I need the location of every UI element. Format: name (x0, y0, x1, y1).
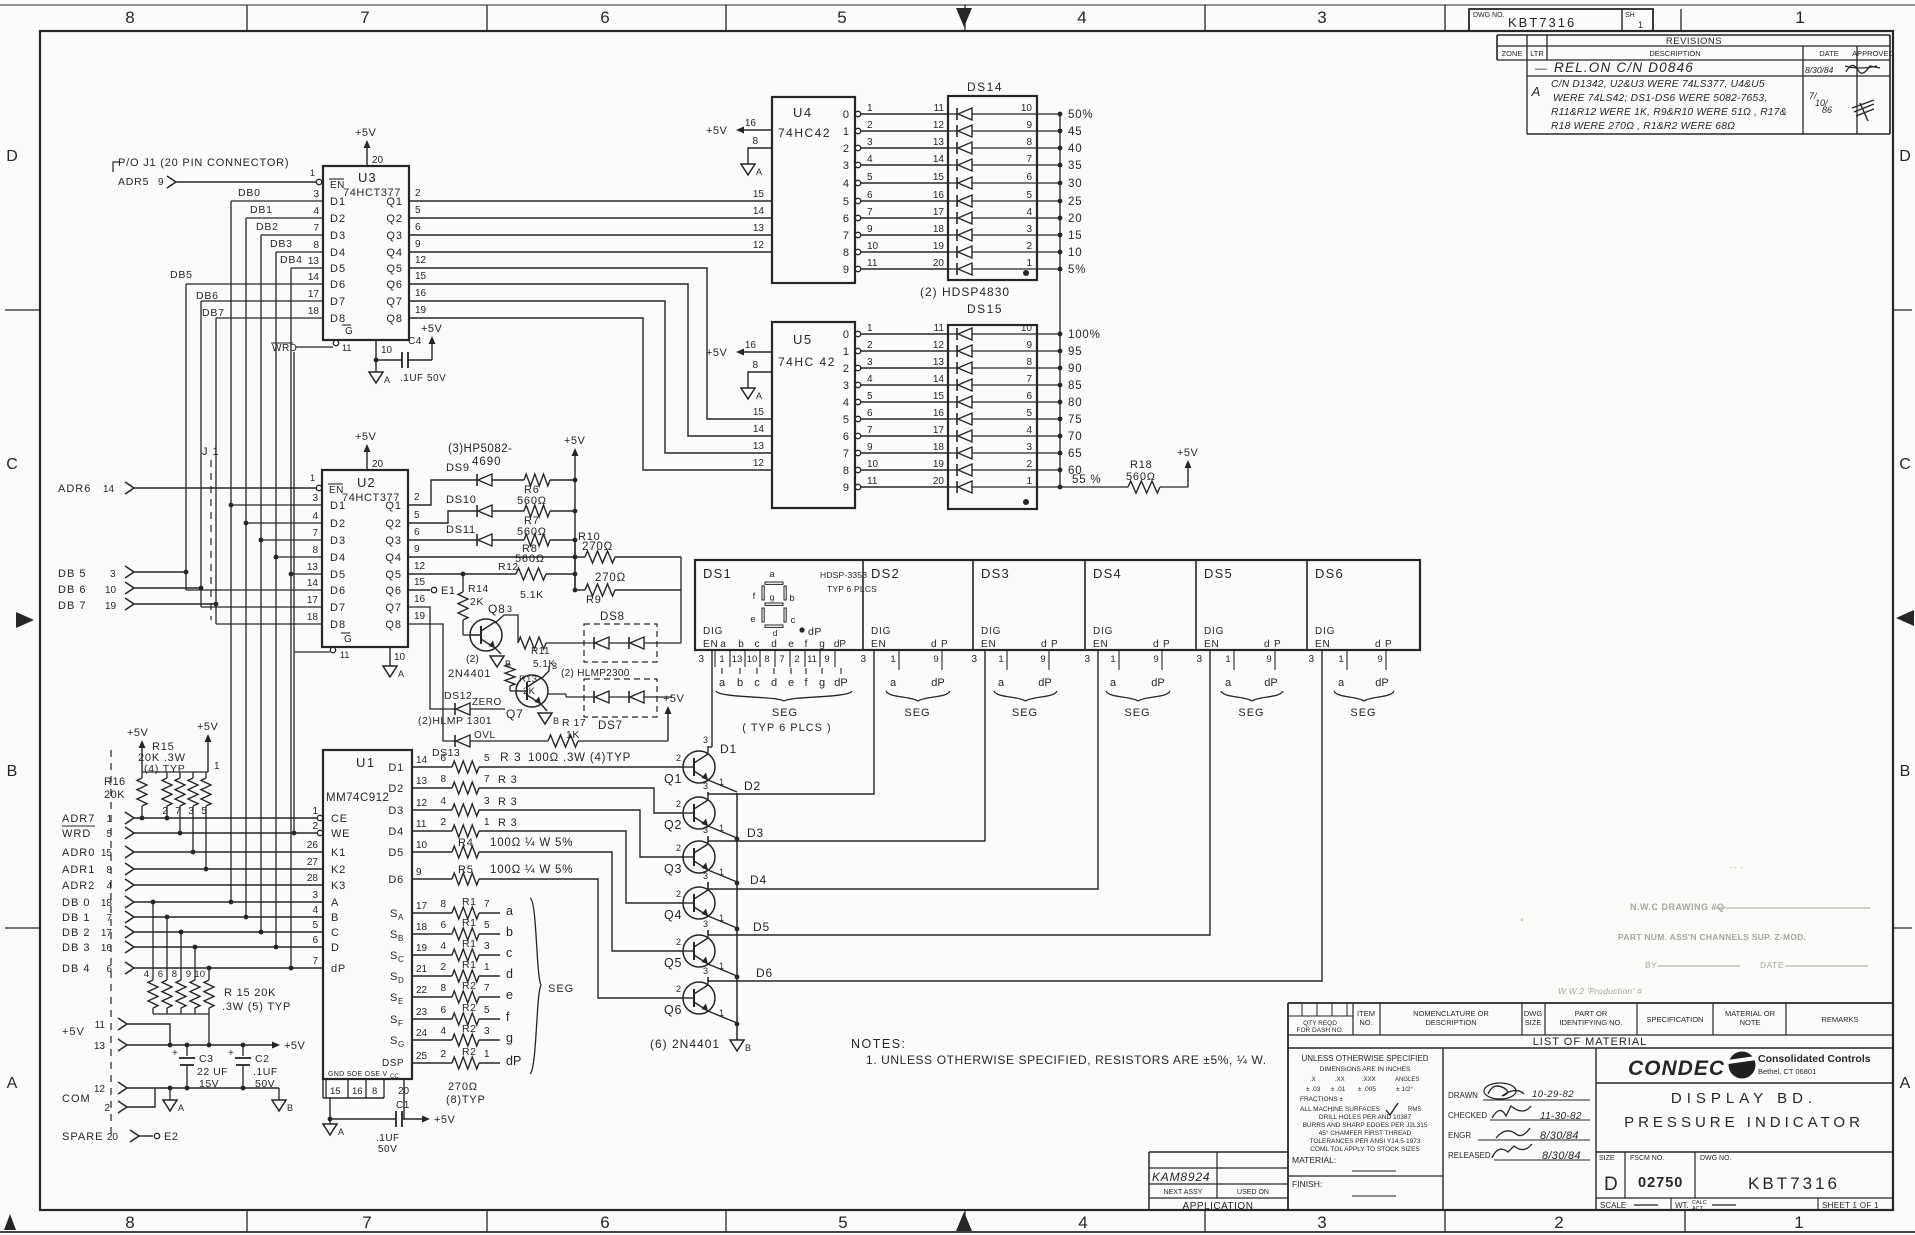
svg-text:8: 8 (106, 865, 112, 876)
svg-text:D1: D1 (330, 196, 346, 208)
svg-text:Q8: Q8 (488, 602, 506, 616)
svg-text:DB 6: DB 6 (58, 584, 86, 596)
svg-text:560Ω: 560Ω (517, 526, 547, 538)
svg-text:A: A (384, 375, 390, 385)
svg-text:8: 8 (440, 774, 446, 785)
svg-text:ADR1: ADR1 (62, 864, 95, 876)
svg-text:a: a (720, 639, 726, 650)
svg-text:1: 1 (843, 126, 849, 138)
svg-text:SCALE: SCALE (1600, 1201, 1626, 1210)
svg-text:5%: 5% (1068, 264, 1086, 276)
svg-text:R18 WERE 270Ω , R1&R2 WERE 68Ω: R18 WERE 270Ω , R1&R2 WERE 68Ω (1551, 121, 1735, 132)
svg-text:50V: 50V (378, 1144, 397, 1155)
svg-text:8: 8 (843, 247, 849, 259)
svg-text:74HC 42: 74HC 42 (778, 355, 836, 369)
svg-text:DSP: DSP (382, 1058, 404, 1069)
svg-text:1: 1 (1026, 258, 1032, 269)
svg-text:R14: R14 (468, 583, 489, 595)
svg-text:9: 9 (867, 442, 873, 453)
svg-text:4: 4 (1077, 8, 1086, 27)
svg-text:16: 16 (101, 943, 113, 954)
svg-text:g: g (819, 677, 825, 689)
svg-text:3: 3 (703, 919, 708, 929)
svg-text:RELEASED: RELEASED (1448, 1151, 1491, 1160)
svg-text:4: 4 (843, 178, 849, 190)
svg-text:11: 11 (807, 654, 817, 665)
svg-text:S: S (390, 971, 397, 983)
svg-text:Q5: Q5 (385, 569, 402, 581)
svg-text:6: 6 (158, 969, 163, 980)
svg-text:e: e (506, 988, 513, 1002)
svg-text:9: 9 (416, 867, 422, 878)
svg-text:D5: D5 (753, 920, 770, 934)
svg-text:3: 3 (484, 941, 490, 952)
svg-text:13: 13 (933, 357, 945, 368)
svg-text:G: G (398, 1040, 404, 1049)
svg-text:11-30-82: 11-30-82 (1540, 1111, 1582, 1122)
svg-text:7: 7 (1026, 374, 1032, 385)
svg-text:b: b (789, 593, 794, 604)
svg-text:11: 11 (934, 323, 945, 334)
svg-text:C2: C2 (255, 1053, 269, 1065)
svg-text:+: + (228, 1048, 234, 1059)
svg-text:8/30/84: 8/30/84 (1542, 1150, 1581, 1162)
svg-text:19: 19 (933, 459, 945, 470)
svg-text:20: 20 (372, 459, 384, 470)
svg-text:ZONE: ZONE (1502, 49, 1523, 58)
svg-text:± 1/2°: ± 1/2° (1396, 1085, 1413, 1093)
svg-text:9: 9 (1153, 654, 1158, 665)
svg-text:3: 3 (110, 569, 116, 580)
svg-text:d P: d P (1041, 639, 1058, 650)
svg-text:7: 7 (360, 8, 369, 27)
svg-text:10: 10 (381, 345, 393, 356)
svg-text:55 %: 55 % (1072, 474, 1101, 486)
svg-text:12: 12 (94, 1084, 106, 1095)
svg-text:R1: R1 (462, 938, 476, 950)
svg-text:2: 2 (843, 143, 849, 155)
svg-text:65: 65 (1068, 448, 1082, 460)
svg-text:8: 8 (752, 360, 758, 371)
svg-text:U5: U5 (793, 332, 813, 347)
svg-text:C: C (6, 456, 18, 473)
svg-text:B: B (287, 1103, 293, 1113)
svg-text:13: 13 (753, 441, 765, 452)
svg-text:24: 24 (416, 1028, 428, 1039)
svg-text:70: 70 (1068, 431, 1082, 443)
svg-text:1: 1 (310, 168, 315, 178)
svg-text:NOTES:: NOTES: (851, 1037, 907, 1051)
svg-text:DS4: DS4 (1093, 566, 1122, 581)
svg-text:3: 3 (552, 661, 557, 671)
svg-text:17: 17 (933, 207, 945, 218)
svg-text:EN: EN (981, 639, 997, 650)
svg-text:15: 15 (753, 189, 765, 200)
svg-text:Consolidated Controls: Consolidated Controls (1758, 1053, 1871, 1065)
svg-text:BY: BY (1645, 960, 1657, 970)
svg-text:DESCRIPTION: DESCRIPTION (1649, 49, 1700, 58)
svg-text:f: f (753, 591, 756, 602)
svg-text:1: 1 (214, 761, 220, 772)
svg-text:5.1K: 5.1K (520, 589, 544, 601)
svg-text:23: 23 (416, 1007, 428, 1018)
svg-text:17: 17 (101, 928, 113, 939)
svg-text:MATERIAL OR: MATERIAL OR (1725, 1009, 1776, 1018)
svg-text:10: 10 (747, 654, 758, 665)
svg-text:2: 2 (1554, 1213, 1563, 1232)
svg-text:DS14: DS14 (967, 80, 1003, 94)
svg-text:f: f (506, 1010, 510, 1024)
svg-text:MM74C912: MM74C912 (326, 792, 389, 804)
svg-text:5: 5 (312, 920, 318, 931)
svg-text:+5V: +5V (434, 1114, 456, 1126)
svg-text:R11: R11 (531, 646, 550, 657)
svg-text:8: 8 (764, 654, 769, 665)
svg-text:.1UF 50V: .1UF 50V (400, 373, 446, 384)
svg-text:DS8: DS8 (600, 611, 625, 623)
svg-text:560Ω: 560Ω (1126, 471, 1156, 483)
svg-text:DB 1: DB 1 (62, 912, 90, 924)
svg-text:DIG: DIG (1315, 626, 1335, 637)
svg-text:D1: D1 (388, 762, 404, 774)
svg-text:ADR2: ADR2 (62, 880, 95, 892)
svg-text:20: 20 (933, 258, 945, 269)
svg-text:13: 13 (416, 776, 428, 787)
svg-text:3: 3 (507, 604, 512, 614)
svg-text:1: 1 (719, 654, 724, 665)
svg-text:11: 11 (867, 476, 878, 487)
svg-text:3: 3 (867, 137, 873, 148)
svg-text:+5V: +5V (127, 727, 149, 739)
svg-text:8: 8 (125, 1213, 134, 1232)
svg-text:A: A (398, 913, 404, 922)
svg-text:90: 90 (1068, 363, 1082, 375)
svg-text:1: 1 (484, 817, 490, 828)
svg-text:.XXX: .XXX (1362, 1077, 1376, 1083)
svg-text:12: 12 (933, 120, 945, 131)
svg-text:6: 6 (106, 964, 112, 975)
svg-text:a: a (1338, 677, 1345, 689)
svg-text:1: 1 (1794, 1213, 1803, 1232)
svg-text:95: 95 (1068, 346, 1082, 358)
svg-text:U2: U2 (357, 475, 376, 490)
svg-text:DRILL HOLES PER AND 10387: DRILL HOLES PER AND 10387 (1319, 1114, 1412, 1121)
svg-text:+5V: +5V (706, 125, 728, 137)
svg-text:6: 6 (414, 527, 420, 538)
svg-text:1: 1 (867, 323, 873, 334)
svg-text:1: 1 (719, 823, 724, 833)
svg-text:± .005: ± .005 (1358, 1086, 1376, 1093)
svg-text:40: 40 (1068, 143, 1082, 155)
svg-text:5: 5 (837, 8, 846, 27)
svg-text:19: 19 (933, 241, 945, 252)
svg-text:K2: K2 (331, 864, 346, 876)
svg-text:Q1: Q1 (664, 772, 682, 786)
svg-text:4: 4 (1078, 1213, 1087, 1232)
svg-text:SEG: SEG (1238, 707, 1264, 719)
svg-text:9: 9 (186, 969, 191, 980)
svg-text:7: 7 (362, 1213, 371, 1232)
svg-text:50%: 50% (1068, 109, 1093, 121)
svg-text:3: 3 (1196, 654, 1202, 665)
svg-text:SPECIFICATION: SPECIFICATION (1647, 1015, 1704, 1024)
svg-text:DS13: DS13 (432, 747, 460, 759)
svg-text:Q3: Q3 (664, 862, 682, 876)
svg-text:30: 30 (1068, 178, 1082, 190)
svg-text:2N4401: 2N4401 (448, 668, 491, 680)
svg-text:10: 10 (105, 585, 117, 596)
svg-text:3: 3 (971, 654, 977, 665)
svg-text:CONDEC: CONDEC (1628, 1057, 1725, 1080)
svg-text:1: 1 (719, 777, 724, 787)
svg-text:CHECKED: CHECKED (1448, 1111, 1487, 1120)
svg-text:11: 11 (416, 819, 427, 830)
svg-text:DWG NO.: DWG NO. (1700, 1155, 1732, 1162)
svg-text:25: 25 (416, 1051, 428, 1062)
svg-text:DIG: DIG (703, 626, 723, 637)
svg-text:D3: D3 (330, 535, 346, 547)
svg-text:ENGR: ENGR (1448, 1131, 1471, 1140)
svg-text:Q2: Q2 (664, 818, 682, 832)
svg-text:DIG: DIG (1093, 626, 1113, 637)
svg-text:a: a (998, 677, 1005, 689)
svg-text:d P: d P (1264, 639, 1281, 650)
svg-text:D8: D8 (330, 313, 346, 325)
svg-text:W.W.2 'Production' #: W.W.2 'Production' # (1558, 986, 1642, 996)
svg-text:WERE 74LS42; DS1-DS6 WERE 5082: WERE 74LS42; DS1-DS6 WERE 5082-7653, (1553, 93, 1767, 104)
svg-text:20K: 20K (104, 789, 125, 801)
svg-text:FSCM NO.: FSCM NO. (1630, 1155, 1664, 1162)
svg-text:B: B (745, 1043, 751, 1053)
svg-text:1: 1 (310, 473, 315, 483)
svg-text:8: 8 (1026, 357, 1032, 368)
svg-text:+: + (172, 1048, 178, 1059)
svg-text:EN: EN (1315, 639, 1331, 650)
svg-text:9: 9 (824, 654, 829, 665)
svg-text:DB6: DB6 (196, 290, 219, 302)
svg-text:17: 17 (416, 901, 428, 912)
svg-text:Q4: Q4 (386, 247, 403, 259)
svg-text:1: 1 (1795, 8, 1804, 27)
svg-text:1: 1 (484, 962, 490, 973)
svg-text:9: 9 (415, 239, 421, 250)
svg-text:dP: dP (1038, 677, 1051, 689)
svg-text:9: 9 (1377, 654, 1382, 665)
svg-text:dP: dP (1151, 677, 1164, 689)
svg-text:6: 6 (600, 1213, 609, 1232)
svg-text:D1: D1 (330, 500, 346, 512)
svg-text:ALL MACHINE SURFACES: ALL MACHINE SURFACES (1300, 1106, 1381, 1113)
svg-text:18: 18 (308, 306, 320, 317)
svg-text:6: 6 (1026, 391, 1032, 402)
svg-text:R12: R12 (498, 561, 519, 573)
svg-text:4: 4 (843, 397, 849, 409)
svg-text:APPROVED: APPROVED (1852, 49, 1894, 58)
svg-text:SIZE: SIZE (1599, 1155, 1615, 1162)
svg-text:5: 5 (484, 1005, 490, 1016)
svg-text:TYP 6 PLCS: TYP 6 PLCS (827, 584, 877, 594)
svg-text:Q2: Q2 (386, 213, 403, 225)
svg-text:6: 6 (415, 222, 421, 233)
svg-text:Q1: Q1 (386, 196, 403, 208)
svg-text:c: c (755, 639, 760, 650)
svg-text:NOTE: NOTE (1740, 1018, 1761, 1027)
svg-text:R 3: R 3 (498, 774, 518, 786)
svg-text:ADR0: ADR0 (62, 847, 95, 859)
svg-text:DB1: DB1 (250, 204, 273, 216)
svg-text:10-29-82: 10-29-82 (1532, 1089, 1574, 1100)
svg-text:DS12: DS12 (444, 690, 472, 702)
svg-text:14: 14 (103, 484, 115, 495)
svg-text:D6: D6 (330, 585, 346, 597)
svg-text:ZERO: ZERO (472, 697, 502, 708)
svg-text:100%: 100% (1068, 329, 1101, 341)
svg-text:+5V: +5V (62, 1026, 85, 1038)
svg-text:C: C (331, 927, 340, 939)
svg-text:75: 75 (1068, 414, 1082, 426)
svg-text:100Ω ¼ W 5%: 100Ω ¼ W 5% (490, 864, 573, 876)
svg-text:GND SOE OSE V: GND SOE OSE V (328, 1071, 388, 1078)
svg-text:A: A (178, 1103, 184, 1113)
svg-text:10: 10 (394, 652, 406, 663)
svg-text:DWG: DWG (1524, 1009, 1542, 1018)
svg-text:D3: D3 (747, 826, 764, 840)
svg-text:7: 7 (867, 207, 873, 218)
svg-text:0: 0 (843, 109, 849, 121)
svg-text:16: 16 (745, 340, 757, 351)
svg-text:A: A (338, 1127, 344, 1137)
svg-text:15: 15 (933, 172, 945, 183)
svg-text:LTR: LTR (1530, 49, 1544, 58)
svg-text:D7: D7 (330, 602, 346, 614)
svg-text:SIZE: SIZE (1525, 1018, 1542, 1027)
svg-text:1: 1 (719, 961, 724, 971)
svg-text:d P: d P (1375, 639, 1392, 650)
svg-text:.. .: .. . (1730, 860, 1744, 870)
svg-text:Q7: Q7 (385, 602, 402, 614)
svg-text:EN: EN (1093, 639, 1109, 650)
svg-text:DIG: DIG (1204, 626, 1224, 637)
svg-text:R 17: R 17 (562, 717, 586, 729)
svg-text:DS11: DS11 (446, 524, 476, 536)
svg-text:Q4: Q4 (664, 908, 682, 922)
svg-text:D5: D5 (330, 263, 346, 275)
svg-text:EN: EN (703, 639, 719, 650)
svg-text:86: 86 (1822, 105, 1832, 115)
svg-text:8: 8 (440, 983, 446, 994)
svg-text:22 UF: 22 UF (197, 1066, 228, 1078)
svg-text:SHEET 1 OF 1: SHEET 1 OF 1 (1822, 1201, 1879, 1210)
svg-text:D: D (1604, 1174, 1618, 1195)
svg-text:14: 14 (933, 154, 945, 165)
svg-text:9: 9 (843, 264, 849, 276)
svg-text:3: 3 (312, 493, 318, 504)
svg-text:DB 4: DB 4 (62, 963, 90, 975)
svg-text:270Ω: 270Ω (595, 572, 626, 584)
svg-text:FINISH:: FINISH: (1292, 1179, 1322, 1189)
svg-text:WRD: WRD (62, 828, 91, 840)
svg-text:(3)HP5082-: (3)HP5082- (448, 443, 512, 455)
svg-text:2: 2 (415, 188, 421, 199)
svg-text:9: 9 (843, 482, 849, 494)
svg-text:Q6: Q6 (664, 1003, 682, 1017)
svg-text:d: d (773, 628, 778, 638)
svg-text:8: 8 (752, 136, 758, 147)
svg-text:1: 1 (1338, 654, 1343, 665)
svg-text:+5V: +5V (1177, 447, 1199, 459)
svg-text:DB 3: DB 3 (62, 942, 90, 954)
svg-text:ADR5: ADR5 (118, 176, 149, 188)
svg-text:C/N D1342, U2&U3 WERE 74LS377,: C/N D1342, U2&U3 WERE 74LS377, U4&U5 (1551, 79, 1765, 90)
svg-text:1: 1 (867, 103, 873, 114)
svg-text:R 3: R 3 (500, 750, 522, 764)
svg-text:15: 15 (753, 407, 765, 418)
svg-text:CE: CE (331, 813, 348, 825)
svg-text:1: 1 (843, 346, 849, 358)
svg-text:11: 11 (340, 650, 349, 660)
svg-text:.3W (5) TYP: .3W (5) TYP (222, 1001, 291, 1013)
svg-text:5: 5 (867, 172, 873, 183)
svg-text:4690: 4690 (472, 456, 502, 468)
svg-text:± .03: ± .03 (1306, 1086, 1321, 1093)
svg-text:e: e (788, 639, 794, 650)
svg-text:9: 9 (1026, 120, 1032, 131)
svg-text:1: 1 (1110, 654, 1115, 665)
svg-text:dP: dP (808, 626, 822, 638)
svg-text:9: 9 (1026, 340, 1032, 351)
svg-text:02750: 02750 (1638, 1175, 1683, 1191)
svg-text:3: 3 (312, 890, 318, 901)
svg-text:EN: EN (329, 485, 344, 496)
svg-text:1: 1 (484, 1049, 490, 1060)
svg-text:dP: dP (506, 1054, 521, 1068)
svg-text:DATE: DATE (1760, 960, 1784, 970)
svg-text:E1: E1 (441, 585, 455, 597)
svg-text:A: A (1531, 84, 1541, 99)
svg-text:6: 6 (600, 8, 609, 27)
svg-text:7: 7 (484, 774, 490, 785)
svg-text:15: 15 (101, 848, 113, 859)
svg-text:18: 18 (933, 224, 945, 235)
svg-text:b: b (506, 925, 513, 939)
svg-text:1: 1 (106, 814, 112, 825)
svg-text:7: 7 (843, 448, 849, 460)
svg-text:ADR6: ADR6 (58, 483, 91, 495)
svg-text:6: 6 (867, 190, 873, 201)
svg-text:D5: D5 (330, 569, 346, 581)
svg-text:d: d (771, 639, 777, 650)
svg-text:R 3: R 3 (498, 817, 518, 829)
svg-text:16: 16 (415, 288, 427, 299)
svg-text:10: 10 (1021, 103, 1033, 114)
svg-text:15: 15 (414, 577, 426, 588)
svg-text:DIG: DIG (871, 626, 891, 637)
svg-text:DWG NO.: DWG NO. (1473, 12, 1505, 19)
svg-text:5: 5 (106, 829, 112, 840)
svg-text:DISPLAY BD.: DISPLAY BD. (1671, 1090, 1817, 1107)
svg-text:RMS: RMS (1408, 1107, 1421, 1113)
svg-text:dP: dP (1264, 677, 1277, 689)
svg-text:7: 7 (1026, 154, 1032, 165)
svg-text:13: 13 (933, 137, 945, 148)
svg-text:D6: D6 (330, 279, 346, 291)
svg-text:KBT7316: KBT7316 (1508, 15, 1576, 30)
svg-text:Q2: Q2 (385, 518, 402, 530)
svg-text:18: 18 (933, 442, 945, 453)
svg-text:D7: D7 (330, 296, 346, 308)
svg-text:3: 3 (703, 735, 708, 745)
svg-text:NEXT ASSY: NEXT ASSY (1164, 1189, 1203, 1196)
